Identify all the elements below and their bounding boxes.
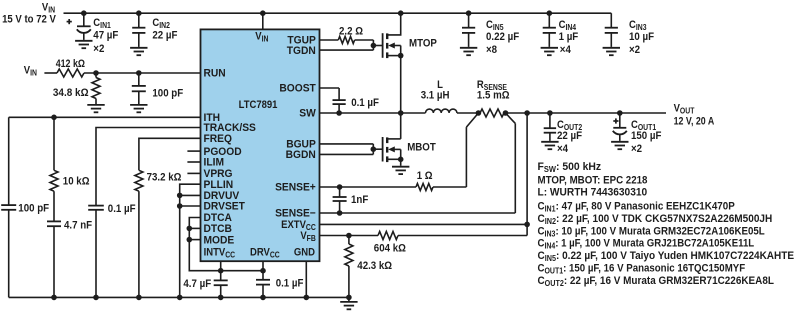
svg-text:2.2 Ω: 2.2 Ω (339, 26, 363, 38)
svg-text:604 kΩ: 604 kΩ (374, 243, 406, 255)
svg-text:34.8 kΩ: 34.8 kΩ (53, 88, 89, 99)
svg-text:MODE: MODE (204, 234, 235, 246)
svg-text:×2: ×2 (93, 44, 104, 56)
svg-text:MTOP, MBOT: EPC 2218: MTOP, MBOT: EPC 2218 (538, 175, 648, 187)
svg-text:L: WURTH 7443630310: L: WURTH 7443630310 (538, 187, 648, 198)
svg-text:10 kΩ: 10 kΩ (63, 176, 90, 188)
svg-text:×2: ×2 (631, 144, 642, 156)
svg-text:150 µF: 150 µF (631, 131, 661, 143)
svg-text:3.1 µH: 3.1 µH (421, 90, 450, 102)
svg-text:×4: ×4 (560, 44, 571, 56)
svg-text:15 V to 72 V: 15 V to 72 V (2, 14, 56, 26)
svg-text:1.5 mΩ: 1.5 mΩ (477, 90, 510, 102)
svg-text:GND: GND (294, 247, 315, 259)
svg-text:LTC7891: LTC7891 (239, 100, 278, 112)
svg-text:CIN1: 47 µF, 80 V Panasonic EE: CIN1: 47 µF, 80 V Panasonic EEHZC1K470P (538, 201, 735, 213)
svg-text:SW: SW (299, 107, 316, 119)
svg-text:4.7 nF: 4.7 nF (64, 220, 92, 232)
svg-text:0.22 µF: 0.22 µF (486, 32, 519, 44)
svg-text:×8: ×8 (486, 44, 497, 56)
svg-text:22 µF: 22 µF (557, 131, 582, 143)
svg-text:×2: ×2 (629, 44, 640, 56)
svg-text:TGDN: TGDN (287, 45, 316, 57)
svg-text:10 µF: 10 µF (629, 32, 654, 44)
svg-text:42.3 kΩ: 42.3 kΩ (357, 261, 392, 273)
svg-text:412 kΩ: 412 kΩ (56, 58, 85, 70)
svg-text:22 µF: 22 µF (152, 30, 177, 42)
svg-text:SENSE−: SENSE− (275, 207, 316, 219)
svg-text:4.7 µF: 4.7 µF (183, 279, 211, 291)
svg-text:CIN3: 10 µF, 100 V Murata GRM3: CIN3: 10 µF, 100 V Murata GRM32EC72A106K… (538, 226, 765, 239)
svg-text:MBOT: MBOT (407, 142, 436, 154)
svg-text:0.1 µF: 0.1 µF (276, 278, 304, 290)
svg-text:RUN: RUN (204, 67, 226, 79)
svg-text:1 Ω: 1 Ω (417, 171, 433, 183)
svg-text:MTOP: MTOP (409, 38, 437, 50)
svg-text:73.2 kΩ: 73.2 kΩ (147, 172, 182, 184)
svg-text:47 µF: 47 µF (93, 30, 118, 42)
svg-text:CIN4: 1 µF, 100 V Murata GRJ21: CIN4: 1 µF, 100 V Murata GRJ21BC72A105KE… (538, 238, 755, 251)
svg-text:CIN2: 22 µF, 100 V TDK CKG57NX: CIN2: 22 µF, 100 V TDK CKG57NX7S2A226M50… (538, 214, 773, 226)
svg-text:×4: ×4 (557, 144, 568, 156)
svg-text:100 pF: 100 pF (152, 88, 183, 100)
svg-text:12 V, 20 A: 12 V, 20 A (674, 116, 715, 128)
svg-text:0.1 µF: 0.1 µF (351, 98, 379, 110)
svg-text:BOOST: BOOST (279, 82, 316, 94)
svg-text:DRVSET: DRVSET (204, 200, 246, 212)
svg-text:COUT2: 22 µF, 16 V Murata GRM3: COUT2: 22 µF, 16 V Murata GRM32ER71C226K… (538, 276, 775, 288)
svg-text:COUT1: 150 µF, 16 V Panasonic: COUT1: 150 µF, 16 V Panasonic 16TQC150MY… (538, 263, 746, 276)
svg-text:100 pF: 100 pF (18, 203, 49, 215)
svg-text:FREQ: FREQ (204, 133, 232, 145)
svg-text:0.1 µF: 0.1 µF (108, 204, 136, 216)
svg-text:BGDN: BGDN (286, 149, 316, 161)
svg-text:CIN5: 0.22 µF, 100 V Taiyo Yud: CIN5: 0.22 µF, 100 V Taiyo Yuden HMK107C… (538, 251, 795, 263)
svg-text:SENSE+: SENSE+ (275, 181, 316, 193)
svg-text:1nF: 1nF (351, 194, 368, 206)
svg-text:1 µF: 1 µF (559, 32, 579, 44)
